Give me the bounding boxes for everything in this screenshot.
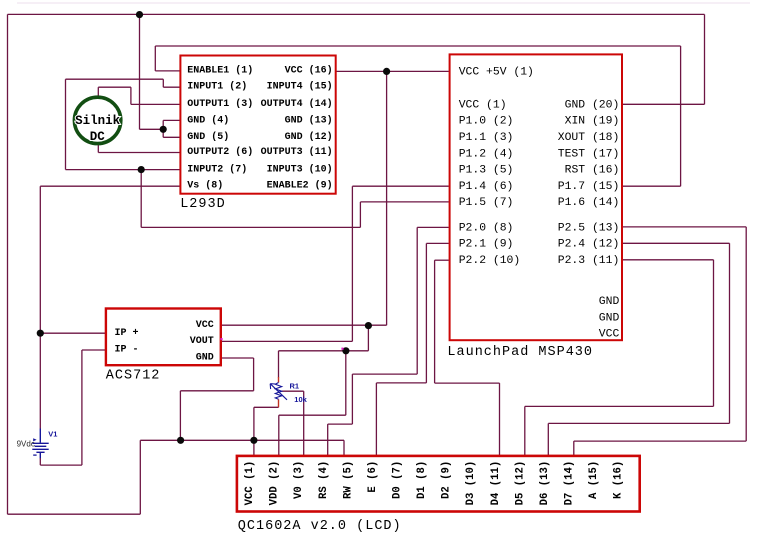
svg-text:P1.0 (2): P1.0 (2) (459, 116, 514, 128)
svg-text:RS (4): RS (4) (318, 461, 330, 499)
svg-text:9Vdc: 9Vdc (17, 440, 35, 449)
svg-text:A (15): A (15) (588, 461, 600, 499)
svg-text:IP -: IP - (115, 345, 139, 356)
svg-text:V0 (3): V0 (3) (293, 461, 305, 499)
svg-text:P2.4 (12): P2.4 (12) (558, 239, 620, 251)
svg-text:GND (20): GND (20) (565, 99, 620, 111)
svg-text:ENABLE1 (1): ENABLE1 (1) (187, 64, 253, 76)
svg-text:D3 (10): D3 (10) (465, 461, 477, 506)
svg-text:K (16): K (16) (613, 461, 625, 499)
svg-text:RST (16): RST (16) (565, 165, 620, 177)
svg-text:OUTPUT4 (14): OUTPUT4 (14) (261, 98, 333, 110)
svg-text:P1.6 (14): P1.6 (14) (558, 197, 620, 209)
svg-text:P2.2 (10): P2.2 (10) (459, 255, 521, 267)
svg-text:INPUT4 (15): INPUT4 (15) (267, 81, 333, 93)
svg-text:GND (12): GND (12) (285, 131, 333, 143)
svg-text:P1.3 (5): P1.3 (5) (459, 165, 514, 177)
svg-text:GND: GND (196, 353, 214, 364)
svg-text:ENABLE2 (9): ENABLE2 (9) (267, 180, 333, 192)
svg-text:VCC (16): VCC (16) (285, 64, 333, 76)
svg-text:D0 (7): D0 (7) (392, 461, 404, 499)
svg-text:VCC: VCC (196, 320, 214, 331)
svg-text:D1 (8): D1 (8) (416, 461, 428, 499)
svg-text:TEST (17): TEST (17) (558, 148, 620, 160)
svg-text:VCC +5V (1): VCC +5V (1) (459, 67, 534, 79)
svg-text:E (6): E (6) (367, 461, 379, 493)
svg-text:GND: GND (599, 312, 620, 324)
svg-text:D4 (11): D4 (11) (490, 461, 502, 506)
svg-text:D7 (14): D7 (14) (564, 461, 576, 506)
svg-text:GND (13): GND (13) (285, 115, 333, 127)
svg-text:VDD (2): VDD (2) (269, 461, 281, 506)
svg-text:OUTPUT1 (3): OUTPUT1 (3) (187, 98, 253, 110)
svg-text:OUTPUT2 (6): OUTPUT2 (6) (187, 146, 253, 158)
svg-text:DC: DC (90, 130, 106, 144)
svg-text:P2.1 (9): P2.1 (9) (459, 239, 514, 251)
svg-text:10k: 10k (294, 395, 307, 404)
svg-text:XIN (19): XIN (19) (565, 116, 620, 128)
svg-text:OUTPUT3 (11): OUTPUT3 (11) (261, 146, 333, 158)
svg-text:V1: V1 (48, 429, 57, 438)
svg-text:P1.7 (15): P1.7 (15) (558, 181, 620, 193)
svg-text:P2.0 (8): P2.0 (8) (459, 222, 514, 234)
svg-text:INPUT3 (10): INPUT3 (10) (267, 163, 333, 175)
svg-text:VCC: VCC (599, 329, 620, 341)
svg-text:Vs (8): Vs (8) (187, 180, 223, 192)
svg-text:RW (5): RW (5) (342, 461, 354, 499)
svg-text:INPUT2 (7): INPUT2 (7) (187, 163, 247, 175)
svg-text:GND (5): GND (5) (187, 131, 229, 143)
svg-text:VCC (1): VCC (1) (244, 461, 256, 506)
svg-text:VOUT: VOUT (190, 336, 214, 347)
svg-text:ACS712: ACS712 (106, 369, 161, 384)
svg-text:QC1602A v2.0 (LCD): QC1602A v2.0 (LCD) (238, 519, 402, 534)
svg-text:P2.5 (13): P2.5 (13) (558, 222, 620, 234)
svg-text:P1.5 (7): P1.5 (7) (459, 197, 514, 209)
svg-text:LaunchPad MSP430: LaunchPad MSP430 (447, 345, 593, 360)
svg-text:VCC (1): VCC (1) (459, 99, 507, 111)
svg-text:Silnik: Silnik (75, 114, 121, 128)
svg-text:P1.2 (4): P1.2 (4) (459, 148, 514, 160)
svg-text:XOUT (18): XOUT (18) (558, 132, 620, 144)
svg-text:INPUT1 (2): INPUT1 (2) (187, 81, 247, 93)
svg-text:P1.4 (6): P1.4 (6) (459, 181, 514, 193)
svg-text:IP +: IP + (115, 328, 139, 339)
svg-text:P1.1 (3): P1.1 (3) (459, 132, 514, 144)
svg-text:GND: GND (599, 296, 620, 308)
svg-text:D5 (12): D5 (12) (514, 461, 526, 506)
svg-text:R1: R1 (290, 382, 300, 391)
svg-text:D2 (9): D2 (9) (441, 461, 453, 499)
svg-text:L293D: L293D (180, 197, 226, 212)
svg-text:D6 (13): D6 (13) (539, 461, 551, 506)
svg-text:P2.3 (11): P2.3 (11) (558, 255, 620, 267)
svg-text:GND (4): GND (4) (187, 115, 229, 127)
